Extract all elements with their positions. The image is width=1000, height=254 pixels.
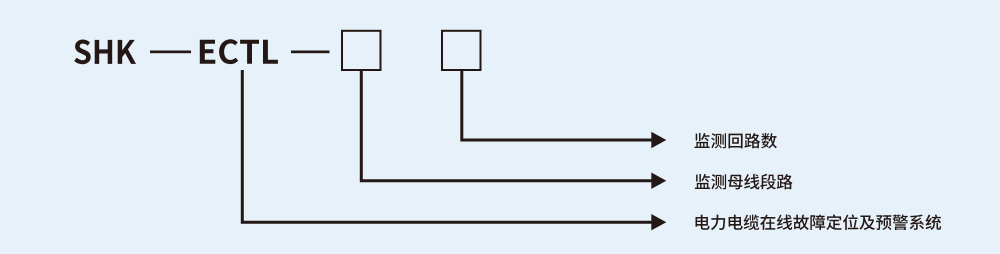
label row 3: 电力电缆在线故障定位及预警系统 — [696, 214, 942, 230]
wire from box 1 to row 2 — [361, 71, 651, 181]
field box 2 (circuit count digit) — [442, 31, 481, 70]
wire from box 2 to row 1 — [462, 71, 652, 140]
label row 1: 监测回路数 — [695, 133, 777, 149]
label row 2: 监测母线段路 — [695, 174, 793, 190]
arrowhead row 2 — [651, 173, 666, 189]
label SHK (product family code) — [74, 40, 136, 65]
label ECTL (product type code) — [200, 39, 278, 64]
wire from ECTL to row 3 — [242, 70, 651, 222]
arrowhead row 1 — [651, 132, 666, 148]
arrowhead row 3 — [651, 214, 666, 230]
separator dash 1 — [150, 51, 191, 54]
separator dash 2 — [291, 51, 330, 54]
field box 1 (busbar section digit) — [342, 31, 381, 70]
